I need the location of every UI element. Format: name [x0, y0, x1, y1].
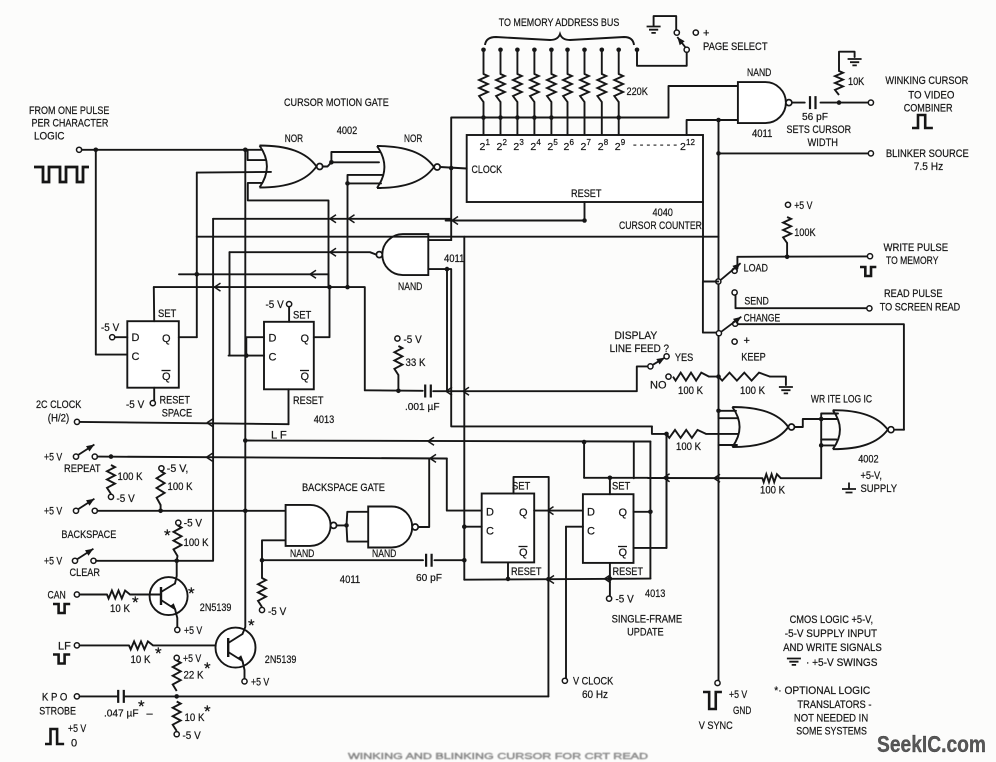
wire FF4 C riser vclock	[565, 527, 567, 679]
svg-text:-5 V,: -5 V,	[167, 463, 189, 475]
junction NOR2 input34 tie	[345, 181, 350, 186]
junction 60pF at v463	[462, 558, 467, 563]
svg-text:33 K: 33 K	[406, 357, 426, 369]
svg-text:CLOCK: CLOCK	[472, 164, 503, 176]
svg-text:PAGE SELECT: PAGE SELECT	[703, 41, 768, 53]
svg-text:-5 V: -5 V	[126, 399, 145, 411]
pin label C FF2	[269, 352, 277, 364]
label STROBE	[39, 706, 76, 718]
svg-text:NOR: NOR	[285, 133, 303, 145]
wire backspace line	[97, 510, 285, 512]
svg-text:Q: Q	[301, 333, 310, 345]
junction FF2 D-C	[244, 353, 249, 358]
junction FF3 reset at bus	[506, 577, 511, 582]
svg-text:SET: SET	[293, 310, 312, 322]
label SEND	[744, 296, 768, 308]
svg-text:*: *	[138, 697, 145, 716]
wire FF1 reset pin	[153, 388, 155, 401]
pin label Q FF4	[619, 507, 628, 519]
svg-text:4002: 4002	[337, 125, 357, 137]
wire W2 in2	[821, 418, 837, 420]
resistor 100K-d	[760, 474, 786, 496]
flip-flop FF2 4013 box	[264, 322, 314, 390]
pin label RESET	[571, 188, 602, 200]
node bus bit 5	[549, 48, 554, 53]
terminal CLEAR contact	[91, 558, 96, 563]
svg-text:CAN: CAN	[48, 590, 66, 602]
label 220K	[627, 86, 649, 98]
svg-text:10 K: 10 K	[131, 654, 151, 666]
svg-text:CURSOR MOTION GATE: CURSOR MOTION GATE	[284, 97, 389, 109]
svg-text:WIDTH: WIDTH	[808, 137, 839, 149]
svg-text:Q: Q	[519, 547, 528, 559]
svg-text:+5 V: +5 V	[729, 689, 748, 701]
label CHANGE	[744, 313, 781, 325]
wire vertical 2^12 to v-sync	[718, 120, 720, 683]
svg-text:+5 V: +5 V	[44, 452, 63, 464]
switch arm CHANGE	[721, 317, 741, 332]
label +5V SWINGS	[806, 657, 878, 669]
terminal YES contact	[664, 354, 669, 359]
label NAND U2	[398, 281, 422, 293]
svg-text:COMBINER: COMBINER	[904, 103, 953, 115]
switch arm CLEAR	[78, 549, 94, 559]
wire CAN to 10K	[80, 594, 108, 596]
svg-text:D: D	[269, 333, 277, 345]
terminal NO	[666, 374, 671, 379]
pin label D FF2	[269, 333, 277, 345]
terminal REPEAT pole	[73, 454, 78, 459]
svg-text:-5 V: -5 V	[117, 493, 136, 505]
svg-text:*: *	[204, 659, 211, 678]
label LOGIC	[34, 131, 65, 143]
svg-text:C: C	[132, 351, 140, 363]
svg-text:CLEAR: CLEAR	[70, 567, 101, 579]
brace over memory address bus	[485, 34, 634, 45]
gate U2 NAND mid 4011	[376, 234, 428, 275]
svg-text:NAND: NAND	[398, 281, 422, 293]
pin label Q FF1	[162, 333, 171, 345]
terminal -5V FF4 reset	[607, 596, 612, 601]
svg-text:4013: 4013	[645, 588, 665, 600]
label SETS CURSOR	[787, 124, 852, 136]
junction FF4 set at line	[608, 476, 613, 481]
resistor 100K-b	[719, 373, 771, 397]
pin label D FF4	[587, 507, 595, 519]
wire NOR1 input1	[246, 149, 262, 151]
label RESET FF1	[160, 395, 191, 407]
resistor 100K-2	[157, 471, 193, 505]
label -5V FF1 reset	[126, 399, 145, 411]
wire NOR2 output to clock	[440, 167, 467, 169]
label SOME SYSTEMS	[796, 726, 867, 738]
pin label D FF3	[486, 507, 494, 519]
resistor 10K pullup	[835, 71, 865, 95]
wire bus column 8 upper	[601, 50, 603, 74]
wire 4040 reset pin	[584, 202, 586, 221]
wire bus column 5 upper	[550, 50, 552, 74]
svg-text:STROBE: STROBE	[39, 706, 76, 718]
node bus bit 10	[635, 48, 640, 53]
wire NOR1 out to NOR2 inputs	[323, 162, 379, 166]
junction backspace at v4	[243, 509, 248, 514]
svg-text:100 K: 100 K	[760, 485, 786, 497]
wire FF4 set riser	[583, 442, 585, 478]
wire FF2 C input	[229, 355, 264, 357]
svg-text:2: 2	[503, 138, 508, 147]
label -5V under 100K-1	[117, 493, 136, 505]
svg-text:RESET: RESET	[613, 566, 644, 578]
svg-text:SETS CURSOR: SETS CURSOR	[787, 124, 852, 136]
jog repeat line	[207, 453, 213, 461]
junction 33K cap node	[396, 389, 401, 394]
svg-text:UPDATE: UPDATE	[627, 627, 664, 639]
label -5V FF1 D	[101, 322, 120, 334]
ground symbol supply	[842, 483, 856, 493]
jog 2c clock	[207, 419, 213, 427]
wire inverter bracket top	[347, 512, 369, 526]
svg-text:C: C	[269, 352, 277, 364]
svg-text:4011: 4011	[752, 128, 772, 140]
wire 60pF to v463	[435, 559, 465, 561]
waveform write pulse	[860, 267, 876, 276]
dash after star	[147, 708, 154, 720]
resistor 10K divider	[173, 702, 211, 732]
svg-text:*: *	[248, 616, 255, 635]
resistor 22K	[173, 659, 211, 691]
wire 33K node line	[365, 389, 423, 392]
junction clock feedback	[449, 166, 454, 171]
wire 100Kc to gate	[706, 433, 739, 435]
resistor 100K-c	[667, 430, 707, 453]
wire 60pF line	[262, 559, 423, 561]
label +5V backspace	[44, 506, 63, 518]
label 4011 U2	[444, 253, 464, 265]
svg-text:+5 V: +5 V	[794, 200, 813, 212]
wire U1 output to cap	[792, 102, 805, 104]
wire W1 in3 100Kc	[652, 426, 667, 434]
svg-text:+5 V: +5 V	[44, 556, 63, 568]
terminal KPO	[74, 694, 79, 699]
svg-text:+5 V: +5 V	[183, 653, 202, 665]
label -5V SUPPLY INPUT	[785, 628, 878, 640]
junction reset line	[582, 218, 587, 223]
junction collect line	[549, 115, 554, 120]
wire Q1 emitter	[175, 609, 177, 627]
terminal page select upper	[674, 30, 679, 35]
label 4013 right pair	[645, 588, 665, 600]
waveform KPO strobe	[45, 729, 64, 744]
wire FF4 Q output	[634, 511, 651, 513]
wire bus 426	[462, 425, 652, 427]
wire FF3 reset pin	[507, 562, 509, 578]
wire 10K to Q1 base	[130, 594, 161, 596]
wire 2C clock line	[80, 422, 289, 424]
switch arm YES-NO	[653, 358, 665, 365]
junction inverter tie	[344, 523, 349, 528]
label RESET FF4	[613, 566, 644, 578]
label BACKSPACE	[61, 529, 116, 541]
svg-text:SeekIC.com: SeekIC.com	[877, 731, 986, 757]
svg-text:100 K: 100 K	[678, 385, 704, 397]
wire input line	[82, 149, 246, 151]
capacitor 60pF	[416, 554, 442, 584]
junction LF at FF4 set riser	[582, 440, 587, 445]
ground at page select	[647, 27, 661, 33]
wire ground to page select	[654, 16, 677, 30]
junction 10K bottom	[837, 100, 842, 105]
label COMBINER	[904, 103, 953, 115]
pin label Q FF3	[519, 507, 528, 519]
gate NOR2 4002	[377, 146, 440, 188]
label 60 Hz	[582, 689, 608, 701]
jog cap line a	[446, 387, 452, 395]
terminal +5V Q1 emitter	[175, 627, 180, 632]
terminal CLEAR pole	[72, 558, 77, 563]
svg-text:9: 9	[621, 138, 626, 147]
svg-text:RESET: RESET	[293, 395, 324, 407]
jog set line d	[714, 474, 720, 482]
label 0 KPO wave	[71, 738, 77, 750]
wire cap to YES pole	[433, 366, 648, 391]
label +5V 100K write	[794, 200, 813, 212]
wire inverter bracket bottom	[347, 525, 369, 541]
wire FF4 reset to -5V	[609, 579, 611, 596]
wire bus A	[179, 273, 329, 275]
label TO VIDEO	[908, 90, 955, 102]
wire NOR1-in4/FF2Q vertical	[328, 274, 330, 287]
svg-text:SOME SYSTEMS: SOME SYSTEMS	[796, 726, 867, 738]
resistor 100K write	[783, 217, 816, 243]
svg-text:LINE FEED ?: LINE FEED ?	[610, 343, 669, 355]
jog reset bus left	[452, 217, 458, 225]
waveform input pulses	[34, 167, 89, 182]
label +5V vsync	[729, 689, 748, 701]
star Q2	[248, 616, 255, 635]
wire reset bus	[464, 579, 650, 580]
wire reset bus left	[446, 220, 585, 222]
node bus bit 4	[532, 48, 537, 53]
pin label CLOCK	[472, 164, 503, 176]
pin label C FF4	[587, 526, 595, 538]
wire bus column 2 lower	[500, 102, 502, 135]
svg-text:7: 7	[587, 138, 592, 147]
jog ff3 D line	[548, 507, 554, 515]
terminal input pulse	[77, 147, 82, 152]
svg-text:1: 1	[486, 138, 491, 147]
wire LOAD contact riser	[736, 257, 738, 269]
svg-text:*: *	[132, 593, 139, 612]
pin label D FF1	[132, 332, 140, 344]
wire SEND to read line	[736, 295, 867, 308]
resistor 220K column 7	[580, 74, 589, 102]
resistor 100K repeat	[107, 465, 143, 494]
label 4011 backspace	[340, 574, 360, 586]
svg-text:22 K: 22 K	[184, 670, 204, 682]
junction reset bus at kpo riser	[546, 577, 551, 582]
junction collect line	[532, 115, 537, 120]
svg-text:4040: 4040	[653, 207, 673, 219]
wire bus column 4 lower	[533, 102, 535, 135]
terminal YESNO pole	[648, 364, 653, 369]
label NAND U1	[747, 67, 771, 79]
svg-text:V CLOCK: V CLOCK	[573, 676, 614, 688]
wire FF4 reset pin	[609, 563, 611, 579]
svg-text:WRITE PULSE: WRITE PULSE	[884, 242, 949, 254]
label UPDATE	[627, 627, 664, 639]
terminal BACKSPACE pole	[73, 508, 78, 513]
svg-text:100K: 100K	[794, 227, 816, 239]
resistor 220K column 1	[479, 74, 488, 102]
svg-text:*· OPTIONAL LOGIC: *· OPTIONAL LOGIC	[774, 685, 870, 697]
wire bus B	[154, 287, 365, 390]
resistor 220K column 8	[597, 74, 606, 102]
wire FF3 Q to FF4 D	[534, 510, 583, 512]
IC 4040 cursor counter box	[467, 135, 703, 202]
wire FF1 SET pin to bus B	[153, 287, 155, 321]
terminal LF	[74, 643, 79, 648]
label LF input	[58, 641, 71, 653]
junction bus A left	[195, 272, 200, 277]
terminal V CLOCK	[562, 678, 567, 683]
junction W2 in4	[819, 443, 824, 448]
wire set line mid	[648, 477, 762, 479]
svg-text:2N5139: 2N5139	[200, 602, 232, 614]
resistor 100K U3 pulldown	[258, 578, 266, 607]
svg-text:4011: 4011	[444, 253, 464, 265]
jog cap line b	[463, 387, 469, 395]
label 4002 write	[858, 454, 878, 466]
wire U2 output left	[230, 252, 377, 254]
junction 100Kc left	[664, 432, 669, 437]
svg-text:7.5 Hz: 7.5 Hz	[914, 161, 943, 173]
svg-text:-5 V: -5 V	[184, 518, 203, 530]
svg-text:-5 V: -5 V	[266, 299, 285, 311]
label 4013 left pair	[314, 414, 334, 426]
label +5V KPO wave	[68, 723, 87, 735]
pin label Q FF2	[301, 333, 310, 345]
junction W2 in tie	[819, 417, 824, 422]
wire U2 bottom dropper	[446, 269, 448, 391]
svg-text:SINGLE-FRAME: SINGLE-FRAME	[612, 614, 683, 626]
wire feedback v2 elbow	[212, 219, 214, 424]
terminal BACKSPACE contact	[92, 508, 97, 513]
waveform winking cursor	[912, 115, 933, 128]
svg-text:YES: YES	[675, 352, 693, 364]
switch arm REPEAT	[79, 445, 95, 455]
terminal V SYNC	[715, 680, 720, 685]
wire write pulse line	[737, 255, 867, 257]
svg-text:BACKSPACE GATE: BACKSPACE GATE	[302, 482, 385, 494]
label 7.5 Hz	[914, 161, 943, 173]
jog bus218b	[349, 215, 355, 223]
junction FF2 Q at bus B	[327, 285, 332, 290]
wire NOR2 input4	[348, 182, 382, 184]
wire FF2 D stub	[246, 337, 264, 355]
gate NOR1 4002	[260, 146, 323, 188]
wire Q1 collector	[175, 561, 177, 584]
svg-text:*: *	[164, 526, 171, 545]
junction input at NOR/collector branch	[243, 148, 248, 153]
wire W2 in4	[821, 444, 835, 446]
junction 100K-1 top	[109, 454, 114, 459]
svg-text:100 K: 100 K	[168, 481, 194, 493]
svg-text:SET: SET	[158, 308, 177, 320]
ground 100K-b	[779, 387, 793, 393]
wire feedback v1	[196, 173, 198, 338]
svg-text:-5 V: -5 V	[268, 606, 287, 618]
wire 100K-2 to backspace line	[160, 505, 162, 511]
terminal -5V 100K-2	[159, 466, 164, 471]
wire LF to 10K	[80, 644, 130, 646]
jog busA	[310, 270, 316, 278]
svg-text:-5 V: -5 V	[101, 322, 120, 334]
wire bus column 3 lower	[516, 102, 518, 135]
terminal -5V 100K repeat	[108, 494, 113, 499]
pin labels 2^1..2^12	[480, 138, 696, 153]
junction FF4 Q node	[648, 510, 653, 515]
pin label SET FF3	[512, 481, 531, 493]
terminal LOAD pole	[716, 279, 721, 284]
wire bus column 6 upper	[567, 50, 569, 74]
wire FF1 D input	[115, 336, 128, 338]
label NOR 1	[285, 133, 303, 145]
junction collect line	[515, 115, 520, 120]
label + page select	[703, 28, 709, 40]
terminal +5V write	[785, 202, 790, 207]
flip-flop FF1 4013 box	[127, 321, 179, 388]
label NOT NEEDED IN	[794, 713, 868, 725]
svg-text:K P O: K P O	[42, 692, 68, 704]
label NO	[650, 380, 667, 392]
label DISPLAY	[615, 330, 658, 342]
wire bus column 9 lower	[618, 102, 620, 135]
capacitor .047uF	[104, 690, 139, 720]
svg-text:.047 µF: .047 µF	[104, 708, 139, 720]
svg-text:SEND: SEND	[744, 296, 768, 308]
svg-text:RESET: RESET	[160, 395, 191, 407]
junction set line at 666	[664, 476, 669, 481]
wire FF4 set line	[584, 477, 610, 479]
resistor 10K LF	[129, 641, 162, 666]
svg-text:5: 5	[553, 138, 558, 147]
label SINGLE-FRAME	[612, 614, 683, 626]
label 2C CLOCK	[36, 399, 82, 411]
label PAGE SELECT	[703, 41, 768, 53]
pin label C FF1	[132, 351, 140, 363]
label WINKING CURSOR	[885, 75, 968, 87]
label -5V 33K	[404, 334, 423, 346]
junction input branch	[94, 148, 99, 153]
svg-text:+5 V: +5 V	[44, 506, 63, 518]
wire input down to FF1 clock	[96, 150, 128, 355]
svg-text:WINKING CURSOR: WINKING CURSOR	[885, 75, 968, 87]
resistor 220K column 9	[614, 74, 623, 102]
svg-text:DISPLAY: DISPLAY	[615, 330, 658, 342]
wire bus column 5 lower	[550, 102, 552, 135]
label WIDTH	[808, 137, 839, 149]
label OPTIONAL LOGIC	[774, 685, 870, 697]
wire bus column 1 upper	[483, 50, 485, 74]
label LOAD	[744, 263, 768, 275]
junction write pulse line	[785, 254, 790, 259]
watermark SeekIC.com	[877, 731, 986, 757]
svg-text:D: D	[587, 507, 595, 519]
wire KPO riser	[547, 579, 549, 696]
resistor 220K column 2	[496, 74, 505, 102]
svg-text:+5 V: +5 V	[184, 625, 203, 637]
resistor 100K-a	[673, 373, 709, 397]
